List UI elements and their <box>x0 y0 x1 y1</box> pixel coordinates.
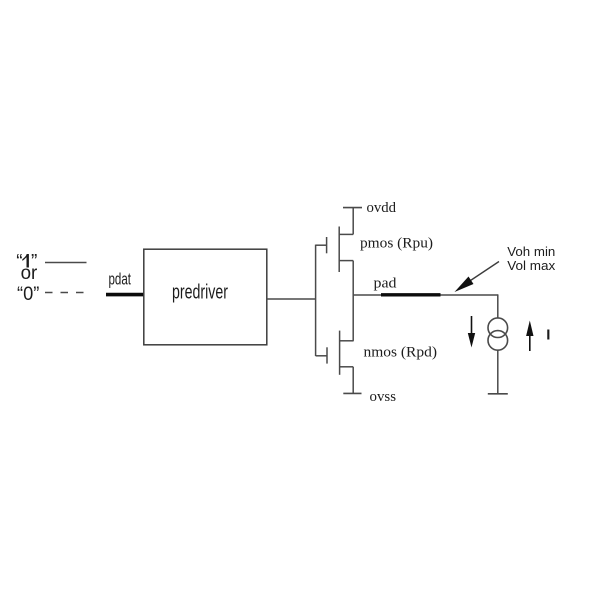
predriver box <box>144 249 267 345</box>
wire current source to ground <box>497 350 499 394</box>
svg-text:pad: pad <box>374 276 398 292</box>
pmos drain vertical to ovdd <box>352 208 354 235</box>
wire pad thick segment <box>381 293 441 296</box>
current source I1 <box>488 318 508 350</box>
wire predriver output <box>267 298 316 300</box>
current direction down arrow <box>468 316 475 348</box>
wire pad bus vertical (pmos source to nmos drain) <box>352 261 354 341</box>
pmos Q1 (Rpu) <box>316 208 354 272</box>
ovdd rail tick <box>343 207 362 209</box>
predriver block U1 <box>144 249 267 345</box>
nmos gate bar <box>326 347 328 363</box>
pmos drain tap <box>339 233 353 235</box>
nmos Q2 (Rpd) <box>316 331 354 394</box>
svg-text:I: I <box>546 327 550 344</box>
svg-text:“0”: “0” <box>17 284 39 305</box>
svg-text:predriver: predriver <box>172 282 228 304</box>
wire logic-1 solid line <box>45 262 87 264</box>
nmos source vertical to ovss <box>352 367 354 394</box>
svg-text:pdat: pdat <box>109 270 132 289</box>
svg-text:ovdd: ovdd <box>367 200 397 216</box>
nmos gate wire <box>316 355 327 357</box>
svg-text:pmos (Rpu): pmos (Rpu) <box>360 236 433 252</box>
wire pdat (thick) <box>106 293 144 297</box>
nmos channel bar <box>339 331 341 375</box>
nmos source tap <box>340 366 354 368</box>
current direction up arrow <box>526 321 533 352</box>
svg-text:Vol max: Vol max <box>507 259 556 273</box>
pmos source tap <box>339 260 353 262</box>
nmos drain tap <box>340 340 354 342</box>
svg-text:ovss: ovss <box>370 389 397 405</box>
ground <box>488 393 508 395</box>
wire gate bus vertical <box>315 245 317 356</box>
annotation arrow to pad <box>455 262 500 293</box>
wire logic-0 dashed line <box>45 292 84 294</box>
svg-text:or: or <box>21 263 38 284</box>
label "1" <box>16 252 37 273</box>
wire pad horizontal <box>353 294 498 296</box>
pmos gate wire <box>316 244 327 246</box>
pmos channel bar <box>338 227 340 273</box>
svg-text:Voh min: Voh min <box>507 245 555 259</box>
svg-text:nmos (Rpd): nmos (Rpd) <box>364 344 438 360</box>
pmos gate bar <box>326 237 328 253</box>
ovss rail tick <box>343 392 361 394</box>
wire pad corner down to current source <box>497 294 499 318</box>
